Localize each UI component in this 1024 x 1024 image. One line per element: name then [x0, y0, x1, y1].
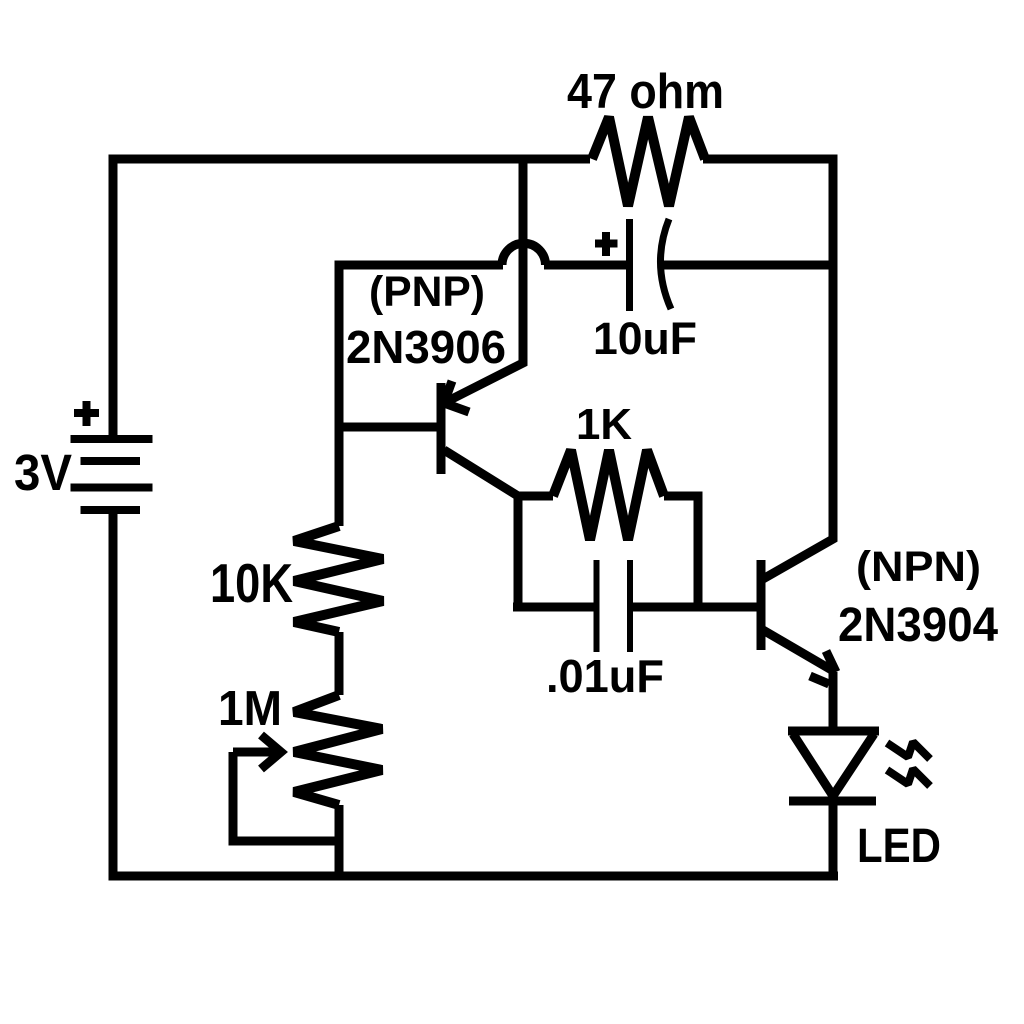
resistor 47 ohm	[592, 117, 705, 206]
capacitor C2 .01uF right plate	[627, 560, 633, 652]
transistor Q2 emitter diagonal	[763, 630, 835, 672]
potentiometer 1M wiper arrow shaft	[233, 748, 276, 757]
svg-text:10uF: 10uF	[593, 313, 697, 364]
resistor 10K zigzag	[294, 526, 383, 632]
wire 1M bottom lead	[335, 805, 344, 876]
svg-text:(PNP): (PNP)	[369, 268, 485, 316]
transistor Q1 2N3906 base bar	[437, 383, 446, 474]
svg-text:47 ohm: 47 ohm	[567, 65, 724, 119]
wire RC box bottom left	[513, 603, 594, 612]
wire .01uF to NPN base	[633, 603, 757, 612]
svg-text:3V: 3V	[14, 444, 72, 501]
transistor Q2 emitter arrowhead	[810, 651, 836, 684]
wire hop over emitter vertical	[502, 243, 546, 265]
LED light bolt 2	[887, 769, 930, 786]
svg-text:2N3906: 2N3906	[346, 321, 506, 373]
wire LED to bottom rail	[829, 801, 838, 876]
capacitor C1 plus sign	[595, 232, 618, 256]
wire hop to 10uF left plate	[544, 261, 627, 270]
transistor Q2 2N3904 base bar	[757, 560, 766, 650]
LED light bolt 1	[887, 742, 930, 759]
capacitor C2 .01uF left plate	[594, 560, 600, 652]
svg-text:10K: 10K	[210, 552, 293, 614]
transistor Q1 emitter arrowhead	[444, 381, 469, 412]
wire battery minus to bottom rail, bottom rail	[113, 510, 838, 876]
potentiometer 1M wiper loop wire	[233, 752, 337, 841]
wire 1K left lead	[518, 492, 553, 501]
wire 10uF to right rail	[661, 261, 833, 270]
svg-text:.01uF: .01uF	[546, 650, 664, 702]
wire PNP box: top-left corner and left vertical	[339, 265, 503, 526]
svg-text:1M: 1M	[218, 682, 282, 736]
wire emitter vertical from top rail and Q1 emitter diagonal	[444, 159, 523, 403]
wire resistor to right corner, right rail down	[703, 159, 833, 539]
svg-text:2N3904: 2N3904	[838, 599, 998, 652]
wire emitter to LED	[829, 672, 838, 731]
svg-text:1K: 1K	[576, 400, 632, 449]
capacitor C1 10uF curved plate	[660, 219, 671, 309]
svg-text:LED: LED	[857, 820, 941, 873]
capacitor C1 10uF left plate	[626, 219, 633, 311]
battery plus sign	[74, 401, 99, 426]
LED D1 cathode bar	[789, 797, 876, 806]
wire top rail and left rail	[113, 159, 590, 439]
transistor Q1 collector diagonal and RC box left vertical	[444, 450, 518, 607]
resistor 1K zigzag	[553, 450, 664, 540]
potentiometer 1M zigzag	[294, 695, 382, 805]
wire 10K to 1M	[335, 632, 344, 695]
LED D1 triangle	[793, 734, 874, 796]
battery B1 3V plates	[71, 435, 153, 443]
LED D1 anode bar	[788, 727, 879, 736]
svg-text:(NPN): (NPN)	[856, 543, 981, 591]
transistor Q2 collector diagonal	[763, 520, 833, 579]
potentiometer 1M wiper arrowhead	[261, 735, 281, 769]
wire 1K right lead and RC box right vertical	[664, 496, 698, 607]
wire PNP base	[339, 423, 437, 432]
